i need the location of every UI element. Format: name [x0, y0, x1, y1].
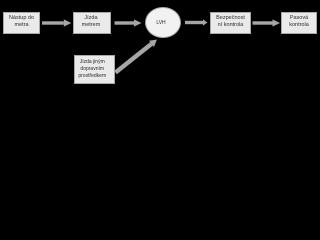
ellipse: LVH [145, 7, 181, 38]
arrow 4 [253, 19, 281, 26]
arrow 1 [42, 19, 71, 26]
arrow 3 [185, 19, 208, 25]
box: Bezpecnostni kontrola [210, 12, 251, 34]
arrow 5 diagonal [113, 36, 159, 75]
box: Jizda jinym dopravnim prostredkem [74, 55, 115, 84]
box: Jizda metrem [73, 12, 111, 34]
arrows [0, 0, 320, 89]
box: Pasova kontrola [281, 12, 317, 34]
box: Nastup do metra [3, 12, 40, 34]
arrow 2 [115, 19, 142, 26]
